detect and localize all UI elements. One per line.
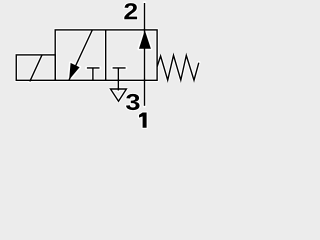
label port 3 <box>126 94 140 110</box>
label port 1 <box>139 113 147 128</box>
white halo pass <box>16 3 199 106</box>
label port 2 <box>124 3 137 19</box>
black pass <box>16 3 199 106</box>
